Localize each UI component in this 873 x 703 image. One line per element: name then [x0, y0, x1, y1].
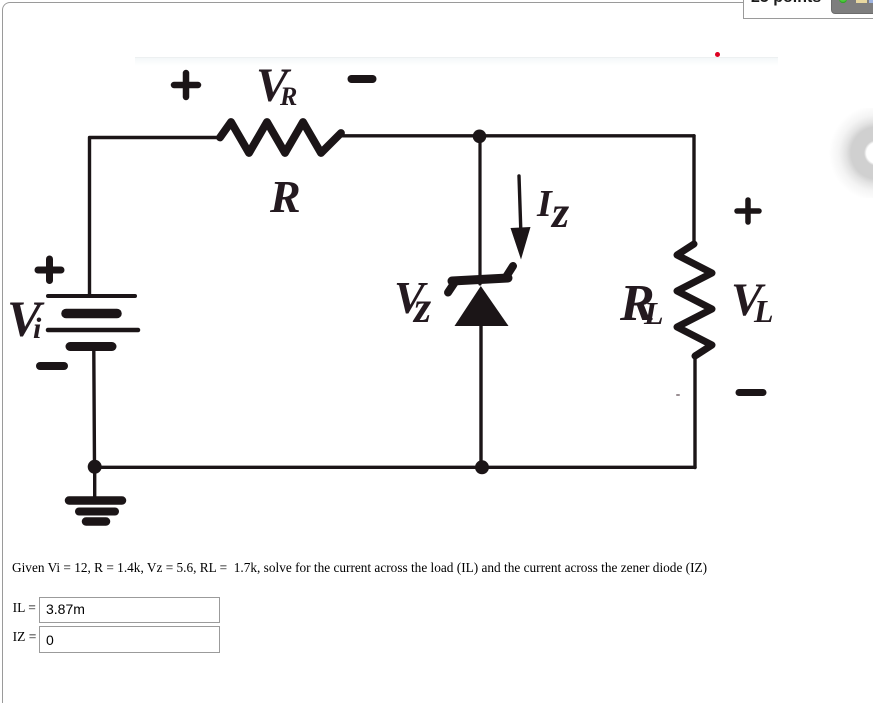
wire: ground stem [93, 467, 96, 497]
zener diode D1 cathode bar [452, 278, 508, 281]
wire: top-left vertical + top wire to resistor [90, 138, 221, 295]
minus sign below battery [40, 362, 64, 370]
node: top junction dot [473, 130, 487, 144]
zener diode D1 bar right tail [506, 266, 513, 277]
green dot on button [839, 0, 847, 3]
svg-text:R: R [269, 171, 301, 222]
node: ground junction dot [88, 460, 102, 474]
wire: bottom wire [94, 466, 695, 469]
svg-text:z: z [550, 188, 569, 237]
red dot [715, 52, 720, 57]
resistor R [220, 122, 341, 153]
faint scan top edge band [135, 57, 778, 58]
ground bar 2 [79, 508, 115, 516]
battery Vi plate 2 (short) [66, 309, 117, 319]
points banner box top-right [743, 0, 873, 19]
svg-text:L: L [643, 295, 664, 331]
25 points text (clipped) [751, 0, 851, 6]
Iz arrow shaft [519, 176, 521, 230]
svg-text:L: L [753, 293, 774, 329]
plus sign above battery [38, 259, 61, 281]
gray button [831, 0, 873, 14]
ground bar 3 [86, 517, 106, 526]
wire: right vertical lower [693, 354, 696, 468]
svg-text:z: z [412, 283, 431, 332]
IZ input box [39, 626, 220, 653]
ground bar 1 [69, 496, 122, 505]
wire: right vertical upper [692, 136, 695, 245]
plus sign above VL [737, 200, 759, 222]
battery Vi plate 1 (long) [48, 294, 135, 298]
wire: zener branch upper [478, 136, 481, 284]
svg-text:i: i [33, 312, 42, 345]
node: bottom junction dot [475, 460, 489, 474]
battery Vi plate 4 (short) [70, 342, 112, 351]
svg-text:I: I [536, 183, 553, 225]
wire: zener branch lower [479, 324, 482, 467]
minus sign right of VR [352, 75, 373, 83]
given problem text [12, 561, 707, 574]
IL input box [39, 597, 220, 623]
speck artifact [676, 394, 680, 396]
wire: battery to bottom [92, 351, 96, 467]
IZ label [13, 630, 37, 644]
svg-text:R: R [279, 82, 297, 111]
zener diode D1 anode triangle [455, 286, 509, 326]
gray circular button cut at right edge [827, 108, 873, 198]
resistor RL [677, 244, 712, 356]
wire: resistor to right corner (top wire) [339, 134, 694, 137]
plus sign left of VR [174, 73, 198, 97]
IL label [13, 601, 36, 615]
battery Vi plate 3 (long) [48, 328, 138, 333]
Iz arrowhead [511, 227, 531, 260]
minus sign below VL [739, 389, 763, 396]
tiny colored specks [856, 0, 867, 3]
zener diode D1 bar left tail [448, 282, 455, 293]
